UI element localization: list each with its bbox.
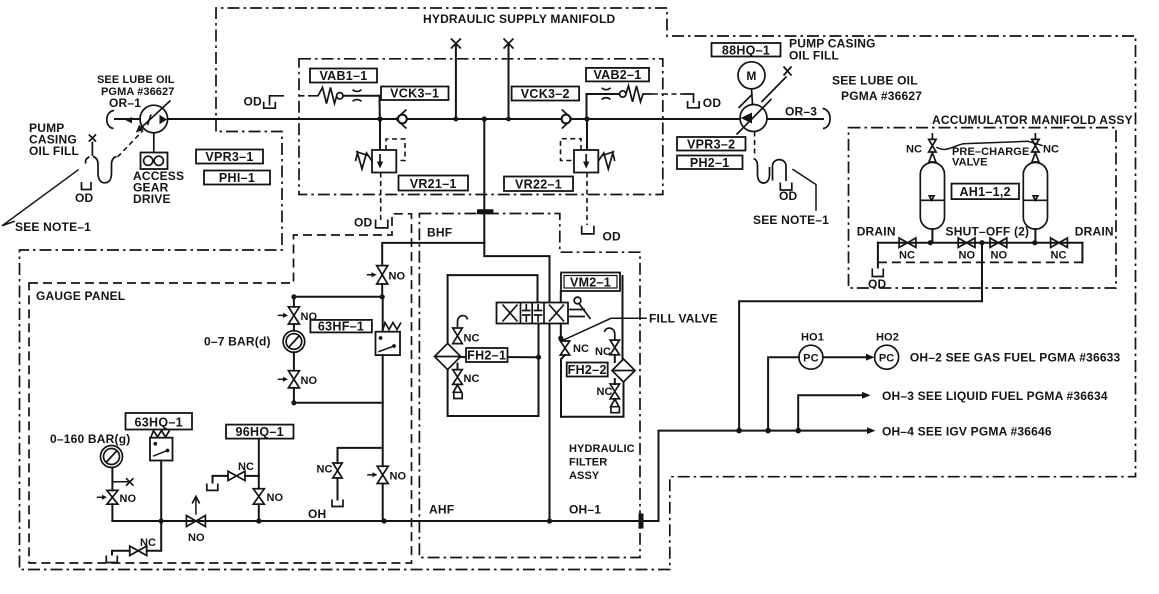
- svg-text:63HF–1: 63HF–1: [318, 319, 364, 333]
- svg-text:PC: PC: [803, 353, 818, 365]
- label SEE LUBE OIL PGMA #36627 (left): [97, 74, 175, 98]
- svg-text:NC: NC: [464, 373, 480, 385]
- instrument HO2: [823, 332, 1121, 370]
- label box PH2-1: [677, 156, 743, 170]
- svg-text:VR21–1: VR21–1: [410, 177, 457, 191]
- check valve VCK3-1: [381, 87, 449, 129]
- svg-text:OD: OD: [703, 96, 722, 110]
- label box VPR3-1: [196, 150, 263, 165]
- wire OH header line: [112, 503, 658, 524]
- FH2-1 drain NC: [453, 364, 480, 399]
- wire main supply line: [115, 118, 823, 120]
- svg-text:HYDRAULIC: HYDRAULIC: [569, 443, 635, 455]
- svg-text:ACCUMULATOR MANIFOLD ASSY: ACCUMULATOR MANIFOLD ASSY: [932, 113, 1133, 127]
- bulkhead bar OH-1 at filter box edge: [639, 514, 644, 529]
- svg-text:SHUT–OFF (2): SHUT–OFF (2): [946, 225, 1030, 239]
- svg-text:OR–1: OR–1: [109, 96, 141, 110]
- FH2-1 loop: [448, 357, 539, 416]
- svg-text:HYDRAULIC SUPPLY MANIFOLD: HYDRAULIC SUPPLY MANIFOLD: [423, 12, 615, 26]
- pump2 casing drain hoses: [754, 132, 798, 204]
- NC drain below OH line (left): [106, 521, 161, 563]
- node OR-1 hook: [107, 96, 141, 129]
- svg-text:NO: NO: [991, 250, 1008, 262]
- see note-1 leader (right): [753, 170, 829, 228]
- OD drain below VR22-1: [582, 226, 621, 244]
- svg-text:ASSY: ASSY: [569, 470, 600, 482]
- svg-text:NC: NC: [595, 346, 611, 358]
- 63HF drop to OH line: [382, 403, 384, 521]
- svg-text:VALVE: VALVE: [952, 157, 988, 169]
- svg-text:VCK3–1: VCK3–1: [390, 87, 439, 101]
- svg-text:NO: NO: [389, 271, 406, 283]
- filter FH2-1: [435, 316, 480, 370]
- access gear drive: [133, 133, 184, 206]
- shut-off valve NC (right): [1051, 238, 1068, 262]
- valve port drops: [536, 324, 564, 522]
- svg-text:VPR3–1: VPR3–1: [205, 150, 253, 164]
- svg-text:NC: NC: [899, 250, 915, 262]
- label box VPR3-2: [677, 137, 746, 151]
- svg-text:OD: OD: [354, 216, 373, 230]
- OD drain (accumulator left): [868, 243, 887, 291]
- shut-off valve NO (right): [990, 238, 1007, 262]
- dashed drive coupling to pump: [118, 131, 144, 158]
- svg-text:VPR3–2: VPR3–2: [687, 137, 735, 151]
- valve NO on 96HQ drop: [253, 489, 283, 505]
- svg-text:OH: OH: [308, 507, 326, 521]
- svg-text:AH1–1,2: AH1–1,2: [959, 185, 1010, 199]
- svg-text:PC: PC: [879, 353, 894, 365]
- svg-text:HO2: HO2: [876, 332, 899, 344]
- svg-text:VR22–1: VR22–1: [515, 178, 562, 192]
- svg-text:PGMA #36627: PGMA #36627: [101, 86, 174, 98]
- svg-text:0–160 BAR(g): 0–160 BAR(g): [50, 432, 130, 446]
- pump PHI-1 (circle with slash and flow triangle): [136, 101, 171, 133]
- svg-text:SEE NOTE–1: SEE NOTE–1: [15, 220, 91, 234]
- svg-text:NC: NC: [597, 386, 613, 398]
- label box FH2-1: [466, 348, 508, 363]
- pre-charge valve label: [937, 141, 1042, 168]
- flow control valve NO on OH line: [186, 497, 205, 545]
- accumulator AH1-1: [906, 133, 945, 229]
- svg-text:NO: NO: [301, 375, 318, 387]
- pump casing oil fill (right): [762, 37, 876, 103]
- valve NO below 0-160 gauge: [98, 490, 137, 505]
- valve NO on 63HF drop: [368, 466, 406, 483]
- svg-text:NC: NC: [464, 333, 480, 345]
- accumulator shut-off manifold line: [857, 225, 1114, 263]
- svg-text:DRAIN: DRAIN: [857, 225, 896, 239]
- svg-text:PGMA #36627: PGMA #36627: [841, 89, 922, 103]
- svg-text:OIL FILL: OIL FILL: [29, 144, 79, 158]
- relief valve VR22-1: [504, 119, 615, 225]
- valve NO on BHF drop: [368, 266, 406, 297]
- svg-text:VAB1–1: VAB1–1: [319, 69, 367, 83]
- svg-text:OD: OD: [244, 95, 263, 109]
- svg-text:OH–2 SEE GAS FUEL PGMA #36633: OH–2 SEE GAS FUEL PGMA #36633: [910, 351, 1121, 365]
- svg-text:NO: NO: [188, 532, 205, 544]
- relief valve VAB1-1: [300, 69, 380, 120]
- svg-text:SEE NOTE–1: SEE NOTE–1: [753, 213, 829, 227]
- flow arrow into pump P1: [125, 117, 132, 123]
- gauge panel dashed boundary: [29, 214, 412, 563]
- wire accumulator feed: [739, 243, 982, 431]
- junction dots on main line: [377, 116, 589, 121]
- svg-text:NO: NO: [267, 492, 284, 504]
- pressure gauge 0-7 BAR(d): [204, 331, 305, 353]
- svg-text:DRIVE: DRIVE: [133, 192, 171, 206]
- svg-text:AHF: AHF: [429, 503, 454, 517]
- wire OH-3: [798, 389, 1108, 431]
- NC drain branch off 63HF drop: [317, 448, 383, 507]
- see note-1 leader (left): [3, 170, 92, 234]
- FH2-2 loop: [561, 382, 624, 417]
- svg-text:NO: NO: [390, 471, 407, 483]
- svg-text:FH2–1: FH2–1: [467, 349, 506, 363]
- pressure gauge 0-160 BAR(g): [50, 432, 134, 521]
- svg-text:OR–3: OR–3: [785, 105, 817, 119]
- svg-text:NC: NC: [317, 464, 333, 476]
- OD drain for VAB2-1: [663, 94, 721, 110]
- shut-off valve NC (left): [899, 238, 916, 262]
- svg-text:OH–3 SEE LIQUID FUEL PGMA #366: OH–3 SEE LIQUID FUEL PGMA #36634: [882, 389, 1108, 403]
- OD drain for VAB1-1: [244, 95, 285, 109]
- svg-text:OD: OD: [603, 230, 622, 244]
- svg-text:FH2–2: FH2–2: [568, 363, 607, 377]
- NC drain branch off 96HQ drop: [207, 461, 259, 490]
- svg-text:DRAIN: DRAIN: [1075, 225, 1114, 239]
- pressure switch 63HF-1: [310, 297, 401, 403]
- label box AH1-1,2: [952, 184, 1020, 200]
- svg-text:NO: NO: [959, 250, 976, 262]
- pressure switch 63HQ-1: [126, 413, 193, 521]
- svg-text:OD: OD: [868, 277, 887, 291]
- svg-text:0–7 BAR(d): 0–7 BAR(d): [204, 335, 271, 349]
- svg-text:HO1: HO1: [801, 332, 824, 344]
- svg-text:NO: NO: [120, 493, 137, 505]
- center manifold tap with bulkhead: [477, 119, 494, 243]
- FH2-2 drain NC: [597, 379, 620, 413]
- svg-text:PHI–1: PHI–1: [219, 171, 255, 185]
- svg-text:OH–4 SEE IGV PGMA #36646: OH–4 SEE IGV PGMA #36646: [882, 425, 1052, 439]
- relief valve VAB2-1: [586, 68, 663, 119]
- fill valve NC: [560, 312, 717, 417]
- svg-text:OD: OD: [779, 189, 798, 203]
- svg-text:NC: NC: [1051, 250, 1067, 262]
- pump casing oil fill (left): [29, 121, 117, 205]
- valve NO (gauge top): [279, 307, 318, 324]
- svg-text:PH2–1: PH2–1: [690, 156, 730, 170]
- svg-text:SEE LUBE OIL: SEE LUBE OIL: [832, 74, 918, 88]
- svg-text:OD: OD: [75, 191, 94, 205]
- svg-text:OIL FILL: OIL FILL: [789, 49, 839, 63]
- svg-text:VAB2–1: VAB2–1: [593, 68, 641, 82]
- motor 88HQ-1: [712, 43, 781, 105]
- capped manifold stub A: [451, 39, 461, 120]
- pressure switch 96HQ-1: [226, 425, 294, 521]
- svg-text:FILL VALVE: FILL VALVE: [649, 312, 718, 326]
- svg-text:BHF: BHF: [427, 226, 452, 240]
- 0-7 BAR gauge loop: [291, 294, 385, 405]
- wire OH-1 riser and OH-4 header: [659, 425, 1052, 522]
- filter FH2-2: [567, 276, 635, 382]
- svg-text:FILTER: FILTER: [569, 457, 607, 469]
- svg-text:NC: NC: [573, 343, 589, 355]
- wire filter supply: [448, 275, 538, 343]
- svg-text:NC: NC: [1043, 144, 1059, 156]
- svg-text:88HQ–1: 88HQ–1: [722, 43, 770, 57]
- instrument HO1: [768, 332, 824, 431]
- capped manifold stub B: [504, 39, 514, 120]
- pump PH2-1 (circle with slash and flow triangle): [737, 94, 772, 135]
- svg-text:96HQ–1: 96HQ–1: [236, 425, 284, 439]
- node OR-3 hook: [785, 105, 830, 129]
- check valve VCK3-2: [512, 87, 579, 129]
- svg-text:VCK3–2: VCK3–2: [521, 87, 570, 101]
- shut-off valve NO (left): [958, 238, 975, 262]
- svg-text:SEE LUBE OIL: SEE LUBE OIL: [97, 74, 175, 86]
- svg-text:NC: NC: [906, 144, 922, 156]
- wire BHF line: [382, 226, 549, 303]
- accumulator AH1-2: [1023, 133, 1059, 229]
- svg-text:M: M: [746, 69, 756, 83]
- relief valve VR21-1: [356, 119, 469, 223]
- accumulator manifold dash-dot boundary: [849, 113, 1133, 288]
- OD drain below VR21-1: [354, 216, 388, 230]
- svg-text:NC: NC: [140, 537, 156, 549]
- svg-text:GAUGE PANEL: GAUGE PANEL: [36, 289, 125, 303]
- svg-text:VM2–1: VM2–1: [570, 275, 611, 289]
- svg-text:OH–1: OH–1: [569, 503, 601, 517]
- directional valve VM2-1: [497, 273, 621, 324]
- supply manifold dash-dot boundary: [299, 12, 663, 195]
- label SEE LUBE OIL PGMA #36627 (right): [832, 74, 922, 104]
- label box PHI-1: [204, 171, 270, 186]
- hydraulic filter assy dash-dot boundary: [419, 214, 640, 558]
- svg-text:63HQ–1: 63HQ–1: [135, 416, 183, 430]
- svg-text:NC: NC: [238, 461, 254, 473]
- valve NO (gauge bottom): [279, 371, 318, 388]
